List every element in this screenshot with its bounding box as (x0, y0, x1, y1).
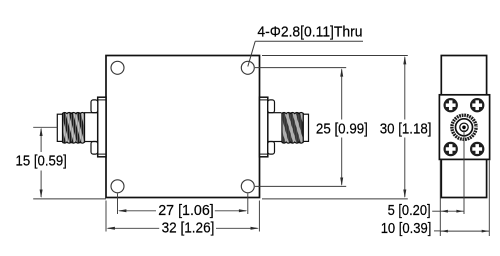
right SMA connector J2 (260, 97, 282, 157)
svg-text:30 [1.18]: 30 [1.18] (380, 121, 432, 137)
flange screw 4 (470, 142, 484, 156)
left SMA connector J1 (84, 97, 106, 157)
mounting hole bottom-right (241, 180, 254, 193)
flange screw 2 (470, 98, 484, 112)
svg-text:5 [0.20]: 5 [0.20] (388, 203, 431, 219)
mounting hole bottom-left (111, 180, 124, 193)
side view connector flange (439, 95, 489, 160)
svg-text:10 [0.39]: 10 [0.39] (381, 221, 432, 237)
dimension 27 [1.06] horizontal (118, 193, 248, 219)
svg-text:27 [1.06]: 27 [1.06] (158, 203, 214, 219)
svg-text:32 [1.26]: 32 [1.26] (162, 221, 215, 237)
dimension 5 [0.20] side view (388, 130, 464, 219)
svg-text:25 [0.99]: 25 [0.99] (316, 121, 368, 137)
left connector threaded barrel (55, 111, 95, 145)
mounting hole top-right (241, 61, 254, 74)
dimension 32 [1.26] horizontal (106, 201, 259, 237)
dimension 25 [0.99] vertical (255, 68, 368, 187)
dimension 30 [1.18] vertical (262, 56, 432, 199)
flange screw 1 (444, 98, 458, 112)
mounting hole top-left (111, 61, 124, 74)
svg-text:4-Φ2.8[0.11]Thru: 4-Φ2.8[0.11]Thru (257, 24, 362, 40)
center coaxial connector (knurled ring) (452, 115, 476, 139)
svg-text:15 [0.59]: 15 [0.59] (16, 153, 67, 169)
dimension 15 [0.59] vertical (16, 127, 106, 199)
right connector threaded barrel (274, 111, 314, 145)
main body front view (106, 56, 260, 198)
dimension 10 [0.39] side view (381, 160, 490, 237)
side view body column (441, 56, 486, 198)
dimension: 4-hole callout with leader (248, 24, 363, 66)
flange screw 3 (444, 142, 458, 156)
